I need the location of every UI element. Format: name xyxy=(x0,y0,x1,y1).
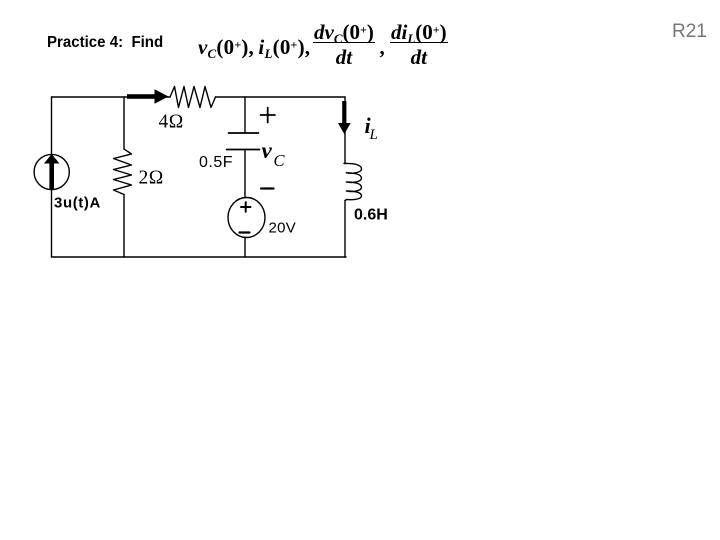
svg-text:2Ω: 2Ω xyxy=(139,168,164,189)
svg-text:3u(t)A: 3u(t)A xyxy=(54,195,101,212)
svg-text:0.6H: 0.6H xyxy=(354,207,388,224)
svg-text:v: v xyxy=(262,138,273,163)
svg-text:20V: 20V xyxy=(269,220,297,237)
svg-text:4Ω: 4Ω xyxy=(159,112,184,133)
svg-text:0.5F: 0.5F xyxy=(199,154,233,171)
svg-text:C: C xyxy=(274,151,286,170)
svg-text:L: L xyxy=(369,127,378,143)
